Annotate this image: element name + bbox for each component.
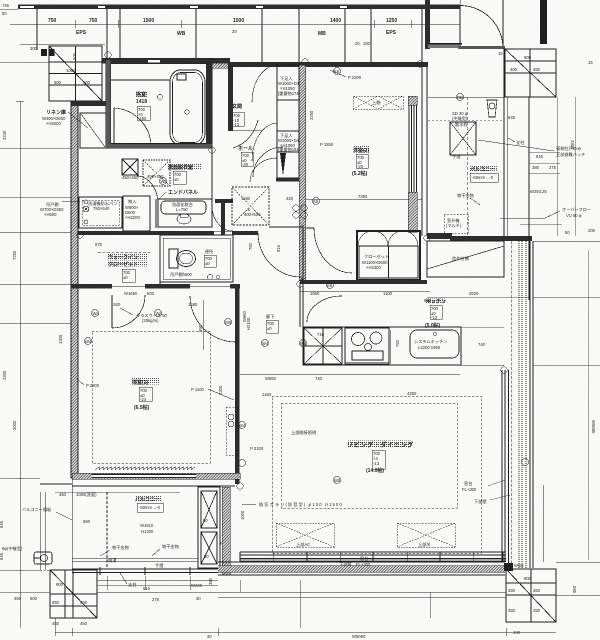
outdoor unit dashed box 室外機 xyxy=(444,214,468,233)
svg-text:(6.5帖): (6.5帖) xyxy=(134,404,150,411)
svg-text:900: 900 xyxy=(524,576,532,581)
balcony inner top line xyxy=(72,485,235,487)
bedroom2 right wall hatched below window xyxy=(408,192,417,232)
svg-text:550: 550 xyxy=(83,519,91,524)
svg-text:(14.0帖): (14.0帖) xyxy=(366,467,384,474)
svg-text:-24: -24 xyxy=(140,397,147,402)
LD outer dashed rect xyxy=(272,396,481,553)
bathroom walls xyxy=(106,59,212,148)
svg-text:(5.0帖): (5.0帖) xyxy=(425,322,441,329)
dim texts below closet xyxy=(310,291,393,296)
svg-text:2230: 2230 xyxy=(2,130,7,140)
window sawtooth marks xyxy=(95,467,195,470)
svg-text:MB: MB xyxy=(318,31,326,37)
leader P2300 xyxy=(76,378,84,385)
svg-text:915: 915 xyxy=(276,244,281,252)
LD inner dashed rect xyxy=(281,403,457,508)
svg-text:100: 100 xyxy=(513,630,521,635)
svg-text:1400: 1400 xyxy=(330,18,341,24)
leader 換気ガラリ xyxy=(242,503,256,505)
stove unit xyxy=(345,328,389,364)
svg-text:645: 645 xyxy=(0,520,4,528)
svg-text:380: 380 xyxy=(532,165,540,170)
svg-text:×H600: ×H600 xyxy=(44,212,57,217)
svg-text:H1200: H1200 xyxy=(141,529,154,534)
svg-text:900: 900 xyxy=(30,596,38,601)
corner shelf 造作付棚 xyxy=(427,241,504,277)
svg-text:EPS: EPS xyxy=(386,30,397,36)
svg-text:90: 90 xyxy=(204,554,209,559)
svg-text:1180: 1180 xyxy=(241,196,251,201)
svg-text:1500: 1500 xyxy=(143,18,154,24)
shower symbol xyxy=(158,95,163,100)
LD right window band xyxy=(502,241,512,565)
svg-text:650: 650 xyxy=(52,600,60,605)
balcony outer edge right xyxy=(503,48,505,236)
toilet room inner line xyxy=(163,238,230,279)
svg-text:W4: W4 xyxy=(300,341,307,346)
svg-text:750: 750 xyxy=(89,18,98,24)
label キッチン xyxy=(425,299,446,329)
label density クローゼット2 xyxy=(108,261,147,267)
svg-text:リネン庫: リネン庫 xyxy=(46,109,66,116)
labels 下部壁 窓台 xyxy=(339,555,371,568)
svg-text:上部避難ハッチ: 上部避難ハッチ xyxy=(556,151,585,158)
svg-text:100: 100 xyxy=(363,41,371,46)
svg-text:東側住戸のみ: 東側住戸のみ xyxy=(556,145,581,152)
washroom right wall xyxy=(211,148,213,206)
bedroom2 right wall hatched above window xyxy=(408,96,417,105)
circled wall mark n6 xyxy=(297,281,303,287)
leader エンドパネル xyxy=(158,192,166,200)
svg-text:450: 450 xyxy=(508,588,516,593)
balcony dim line xyxy=(55,491,180,493)
washroom divider line xyxy=(155,199,157,228)
svg-text:750: 750 xyxy=(48,18,57,24)
hanging cupboard label 吊戸棚 xyxy=(40,201,64,217)
WIC door leaf xyxy=(111,295,113,328)
genkan side hatch xyxy=(212,63,228,68)
bottom dimension line xyxy=(55,628,556,636)
svg-text:バルコニー隔板: バルコニー隔板 xyxy=(22,506,52,513)
svg-text:450: 450 xyxy=(533,588,541,593)
svg-text:875: 875 xyxy=(95,242,103,247)
svg-text:(25kg/m): (25kg/m) xyxy=(142,318,159,323)
label density 洋室(2) xyxy=(353,146,370,153)
bedroom2 door leaf xyxy=(306,227,314,229)
hall to LD door arc xyxy=(258,233,301,277)
dim texts right xyxy=(530,140,596,235)
svg-text:20: 20 xyxy=(355,41,360,46)
label 洗面脱衣室 xyxy=(168,164,193,184)
svg-text:300: 300 xyxy=(30,46,38,51)
hall storage labels xyxy=(241,196,261,217)
svg-text:645: 645 xyxy=(508,115,516,120)
bath door leaf xyxy=(113,108,115,144)
label density リビング・ダイニング xyxy=(347,441,411,448)
kitchen counter outline xyxy=(303,327,461,365)
svg-text:-50mm→-0: -50mm→-0 xyxy=(472,175,494,180)
closet クローゼット xyxy=(357,231,420,280)
leaders right labels xyxy=(488,480,505,486)
toilet duct wall xyxy=(215,199,233,203)
EPS shaft square top-left xyxy=(49,46,102,101)
label 洗面化粧台 xyxy=(172,201,193,212)
circled wall mark n1 xyxy=(105,52,111,58)
svg-text:W9: W9 xyxy=(225,320,232,325)
svg-text:1100: 1100 xyxy=(383,291,393,296)
genkan step line xyxy=(233,120,258,148)
hall storage X box dashed xyxy=(232,187,269,225)
svg-text:手摺: 手摺 xyxy=(155,562,163,569)
svg-text:900: 900 xyxy=(524,55,532,60)
svg-text:P 2100: P 2100 xyxy=(250,446,264,451)
svg-text:H2100: H2100 xyxy=(246,317,251,330)
circled wall mark n5 xyxy=(77,232,83,238)
circled wall mark a xyxy=(160,178,168,185)
svg-text:7250: 7250 xyxy=(12,250,17,260)
faucet fixture xyxy=(34,552,52,564)
label バルコニー xyxy=(470,166,498,182)
circled wall mark n4 xyxy=(417,61,423,67)
svg-text:W5080: W5080 xyxy=(591,420,596,434)
svg-text:1305: 1305 xyxy=(58,334,63,344)
svg-text:造作付棚: 造作付棚 xyxy=(452,255,469,262)
svg-text:上棚: 上棚 xyxy=(372,99,380,106)
svg-text:廊下: 廊下 xyxy=(266,313,274,320)
sink label box システムキッチン xyxy=(410,330,459,358)
svg-text:W4: W4 xyxy=(85,339,92,344)
balcony top edge line extension xyxy=(40,483,72,485)
circled wall mark c xyxy=(92,310,100,317)
shoe cabinet door arc 2 xyxy=(252,123,277,161)
svg-text:50: 50 xyxy=(2,11,7,16)
exterior wall right of bedroom2 xyxy=(421,67,423,236)
svg-text:-20: -20 xyxy=(357,164,364,169)
svg-text:30: 30 xyxy=(207,634,212,639)
svg-text:±0: ±0 xyxy=(267,326,272,331)
svg-text:(5.2帖): (5.2帖) xyxy=(352,170,368,177)
circled wall mark i xyxy=(239,422,246,429)
label 洗濯機防水パン xyxy=(88,200,118,211)
svg-text:EPS: EPS xyxy=(76,30,87,36)
dim texts below WIC wall xyxy=(111,291,198,307)
svg-text:450: 450 xyxy=(533,67,541,72)
lower horizontal line xyxy=(97,579,218,581)
bathtub xyxy=(170,70,205,145)
svg-text:450: 450 xyxy=(508,608,516,613)
genkan upper wall xyxy=(458,46,505,49)
svg-text:30: 30 xyxy=(196,596,201,601)
bedroom2 top beam X box xyxy=(353,96,403,109)
svg-text:2250: 2250 xyxy=(309,110,314,120)
label 玄関 xyxy=(232,103,244,127)
circled wall mark j xyxy=(313,198,320,205)
svg-text:450: 450 xyxy=(80,621,88,626)
bedroom2 window band right xyxy=(409,105,417,192)
closet 物入 xyxy=(123,196,150,231)
hall door arc 3 xyxy=(250,158,277,182)
balcony TR inner dashed vertical xyxy=(466,97,468,236)
glass wool leader xyxy=(120,308,133,315)
circled wall mark n10 xyxy=(501,367,507,373)
svg-text:L2200 1950: L2200 1950 xyxy=(418,345,441,350)
leader P1100 xyxy=(208,389,234,400)
svg-text:窓台: 窓台 xyxy=(360,555,368,562)
svg-text:450: 450 xyxy=(80,600,88,605)
washroom bottom wall of bath xyxy=(106,144,212,148)
svg-text:1480: 1480 xyxy=(188,302,198,307)
svg-text:380: 380 xyxy=(208,577,213,585)
svg-text:500: 500 xyxy=(83,80,91,85)
wall top exterior band xyxy=(18,5,460,10)
svg-text:-13: -13 xyxy=(373,461,380,466)
svg-text:手摺: 手摺 xyxy=(452,153,460,160)
LD bottom window band xyxy=(240,552,506,562)
leader 避難ハッチ xyxy=(478,140,554,151)
right outer lines xyxy=(530,241,533,568)
label density バルコニーBL xyxy=(135,496,162,502)
dim line 2620 xyxy=(427,296,530,298)
leader オーバーフロー xyxy=(500,211,560,218)
balcony handrail xyxy=(72,569,218,573)
wall left of entrance xyxy=(425,0,430,49)
svg-text:275: 275 xyxy=(549,165,557,170)
svg-text:支柱: 支柱 xyxy=(516,139,525,146)
PS shaft with X boxes xyxy=(198,487,220,568)
label density 浴室 xyxy=(136,92,148,98)
dim texts bottom left xyxy=(143,577,213,602)
glass wool label xyxy=(136,312,168,323)
svg-text:吊戸棚h500: 吊戸棚h500 xyxy=(170,271,193,278)
circled wall mark n9 xyxy=(237,483,243,489)
svg-text:-150: -150 xyxy=(138,116,147,121)
dimension line top xyxy=(10,20,460,28)
svg-text:1000: 1000 xyxy=(66,68,76,73)
right wall dotted bands xyxy=(519,241,526,568)
shoe cabinet label 2 xyxy=(278,133,304,153)
svg-text:RD: RD xyxy=(457,95,463,100)
closet label xyxy=(362,253,389,270)
svg-text:1150: 1150 xyxy=(262,392,272,397)
leader 隔板 xyxy=(56,512,72,520)
right edge vertical dim line xyxy=(587,250,589,560)
svg-text:6φ(中継型): 6φ(中継型) xyxy=(2,545,23,552)
bath counter line xyxy=(111,79,170,81)
label 室外機マルチ xyxy=(446,217,462,229)
svg-text:WB: WB xyxy=(177,31,186,37)
svg-text:±0: ±0 xyxy=(205,261,210,266)
right neighbor vertical line xyxy=(528,97,530,240)
wall second band left xyxy=(102,58,230,64)
svg-text:WG2: WG2 xyxy=(514,563,524,568)
shoe cabinet dark wedge xyxy=(280,153,286,176)
entrance door arc xyxy=(460,6,503,49)
shoe cabinet label 1 xyxy=(278,76,304,97)
bedroom1 door arc xyxy=(190,296,236,342)
wall entrance threshold xyxy=(428,44,461,48)
circled wall mark n3 xyxy=(302,59,308,65)
circled wall mark k xyxy=(225,319,232,326)
left edge dim texts xyxy=(0,552,38,601)
wall second band right xyxy=(230,62,428,67)
svg-text:2200: 2200 xyxy=(218,385,223,395)
PS labels xyxy=(203,518,226,559)
svg-text:L=750: L=750 xyxy=(176,207,188,212)
kitchen sink faucet xyxy=(390,330,437,364)
svg-text:P 2300: P 2300 xyxy=(348,75,362,80)
genkan floor edge xyxy=(233,129,262,131)
genkan left wall xyxy=(228,63,233,131)
svg-text:645: 645 xyxy=(0,552,4,560)
linen leader line xyxy=(68,112,88,128)
dims inside EPS square xyxy=(54,52,91,85)
bedroom1 bottom window wall xyxy=(72,473,240,479)
left edge rotated dims xyxy=(2,130,17,430)
label 便所 xyxy=(204,248,216,267)
toilet small basin xyxy=(208,275,213,280)
toilet room walls xyxy=(160,235,233,282)
wall below closet xyxy=(300,280,427,284)
shoe cabinet door arc 1 xyxy=(252,65,277,102)
svg-text:400×500: 400×500 xyxy=(244,212,261,217)
pipe space partition lines xyxy=(37,9,422,62)
svg-text:物干金物: 物干金物 xyxy=(457,192,474,199)
washroom bottom wall xyxy=(78,231,214,235)
svg-text:7350: 7350 xyxy=(358,194,368,199)
circled wall mark b xyxy=(155,310,163,317)
leader P2300 xyxy=(330,70,346,77)
entrance door leaf xyxy=(459,6,461,49)
left top strip line xyxy=(20,43,105,45)
balcony floor drain line xyxy=(428,119,504,121)
svg-text:745: 745 xyxy=(2,3,10,8)
label density バルコニーTR xyxy=(470,166,498,172)
leader 物干金物 xyxy=(470,198,480,205)
svg-text:750: 750 xyxy=(248,242,253,250)
svg-text:400: 400 xyxy=(510,67,518,72)
svg-text:×H2200: ×H2200 xyxy=(125,215,140,220)
wall below shoe cabinet xyxy=(276,178,299,182)
bedroom1 door dim line xyxy=(202,300,204,350)
svg-text:-13: -13 xyxy=(233,122,240,127)
corner thick marks xyxy=(504,563,513,571)
small wall squares above EPS shaft xyxy=(41,49,47,56)
svg-text:4250: 4250 xyxy=(407,391,417,396)
corridor top jog xyxy=(269,226,303,228)
room label 洋室(2) xyxy=(352,147,369,177)
evacuation hatch X box xyxy=(450,122,476,155)
party wall dark bar top right xyxy=(540,0,547,44)
balcony divider partition xyxy=(106,492,108,569)
svg-text:K6: K6 xyxy=(334,69,340,74)
counter bottom dim line xyxy=(240,373,460,375)
svg-text:2620: 2620 xyxy=(469,291,479,296)
svg-text:WA: WA xyxy=(93,311,100,316)
svg-text:支柱: 支柱 xyxy=(128,581,137,588)
washroom side walls xyxy=(77,148,79,235)
svg-text:W9: W9 xyxy=(334,478,341,483)
svg-text:1650: 1650 xyxy=(310,291,320,296)
svg-text:515: 515 xyxy=(143,586,151,591)
circled wall marks xyxy=(293,205,307,218)
circled wall mark d xyxy=(334,68,341,75)
ceiling access X box solid xyxy=(122,159,138,175)
svg-text:物干金物: 物干金物 xyxy=(112,544,129,551)
svg-text:450×450: 450×450 xyxy=(122,175,139,180)
svg-text:散水栓: 散水栓 xyxy=(455,121,468,128)
svg-text:450: 450 xyxy=(533,608,541,613)
label density 洋室(1) xyxy=(132,378,159,385)
dim line 7350 xyxy=(306,198,422,200)
dim texts below counter xyxy=(262,376,417,397)
room label リビング・ダイニング xyxy=(347,441,414,474)
left exterior wall hatched xyxy=(71,101,78,478)
svg-text:450: 450 xyxy=(59,492,67,497)
right wall dark verticals lower xyxy=(528,241,530,300)
svg-text:W4: W4 xyxy=(262,341,269,346)
washing machine pan xyxy=(79,197,122,228)
washroom inner door arc xyxy=(137,176,158,204)
svg-text:WA: WA xyxy=(161,179,168,184)
svg-text:500: 500 xyxy=(54,80,62,85)
svg-text:200: 200 xyxy=(588,228,596,233)
WIC bottom wall with door openings xyxy=(71,284,112,289)
label SD30φ 中継型 散水栓 xyxy=(452,111,468,128)
circled mark LD right xyxy=(522,459,529,466)
svg-text:K5: K5 xyxy=(313,199,319,204)
corner column square top-right xyxy=(505,49,556,97)
label 東側住戸のみ上部避難ハッチ xyxy=(556,145,585,158)
dim lines right area xyxy=(520,97,575,236)
svg-text:W1650: W1650 xyxy=(124,291,138,296)
bottom-left corner column square xyxy=(50,570,97,618)
wall below EPS square xyxy=(71,101,111,106)
svg-text:FL+300: FL+300 xyxy=(462,487,477,492)
svg-text:WA: WA xyxy=(156,311,163,316)
svg-text:420: 420 xyxy=(286,196,294,201)
cabinet circles xyxy=(228,414,234,420)
svg-text:玄関: 玄関 xyxy=(232,103,242,110)
svg-text:W235: W235 xyxy=(191,583,203,588)
svg-text:上部間接照明: 上部間接照明 xyxy=(291,429,316,436)
svg-text:15: 15 xyxy=(498,51,503,56)
circled mark l xyxy=(85,338,92,345)
linen closet box xyxy=(80,113,106,148)
WIC door arc xyxy=(112,295,145,328)
svg-text:450: 450 xyxy=(14,596,22,601)
circled wall mark h xyxy=(457,94,464,101)
svg-text:W1810: W1810 xyxy=(140,523,154,528)
toilet door arc from hall xyxy=(253,147,283,177)
svg-text:VU 50 φ: VU 50 φ xyxy=(566,213,582,218)
svg-text:±0: ±0 xyxy=(123,275,128,280)
kitchen left wall xyxy=(299,282,301,327)
svg-text:物干金物: 物干金物 xyxy=(162,543,179,550)
svg-text:上部吊: 上部吊 xyxy=(418,541,431,548)
bedroom2 door arc xyxy=(314,228,352,273)
label density 洗面脱衣室 xyxy=(168,164,202,170)
svg-text:3000: 3000 xyxy=(12,420,17,430)
leader lines xyxy=(100,550,110,556)
svg-text:ホール: ホール xyxy=(238,145,253,152)
balcony gutter lines xyxy=(72,557,198,559)
kitchen right edge line xyxy=(460,327,462,365)
circled wall mark g xyxy=(300,340,307,347)
svg-text:1250: 1250 xyxy=(386,18,397,24)
svg-text:P 2300: P 2300 xyxy=(86,383,100,388)
ceiling hatch X box dashed xyxy=(143,160,170,186)
